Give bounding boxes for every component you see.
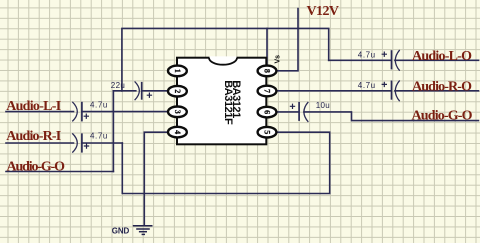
- svg-text:V12V: V12V: [307, 4, 340, 19]
- svg-text:Audio-L-O: Audio-L-O: [412, 49, 472, 64]
- svg-text:Audio-R-I: Audio-R-I: [6, 129, 61, 144]
- svg-text:BA3121F: BA3121F: [222, 80, 234, 125]
- svg-text:GND: GND: [112, 227, 130, 236]
- svg-text:Audio-R-O: Audio-R-O: [412, 79, 472, 94]
- svg-text:4.7u: 4.7u: [358, 51, 375, 60]
- svg-text:Audio-G-O: Audio-G-O: [7, 160, 66, 175]
- svg-text:5: 5: [263, 130, 272, 134]
- svg-text:4: 4: [173, 130, 182, 134]
- svg-text:22u: 22u: [111, 81, 125, 90]
- svg-text:Vs: Vs: [274, 55, 281, 64]
- svg-text:3: 3: [173, 110, 182, 114]
- svg-text:6: 6: [263, 110, 272, 114]
- svg-text:4.7u: 4.7u: [90, 132, 107, 141]
- svg-text:1: 1: [173, 69, 182, 73]
- svg-text:8: 8: [263, 69, 272, 73]
- svg-text:Audio-L-I: Audio-L-I: [6, 99, 61, 114]
- svg-text:10u: 10u: [316, 101, 330, 110]
- svg-text:7: 7: [263, 89, 272, 93]
- svg-text:4.7u: 4.7u: [90, 101, 107, 110]
- svg-text:Audio-G-O: Audio-G-O: [412, 108, 473, 123]
- svg-text:2: 2: [173, 89, 182, 93]
- svg-text:4.7u: 4.7u: [358, 81, 375, 90]
